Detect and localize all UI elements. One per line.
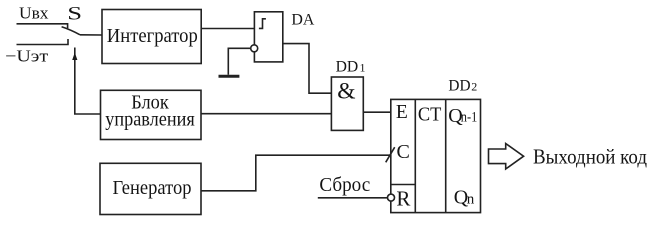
wire DA output to AND gate [283, 44, 332, 94]
label DD2 [448, 78, 477, 95]
pin R inverting circle [388, 194, 395, 201]
switch S lever [62, 27, 80, 35]
label CT [418, 104, 442, 126]
svg-text:C: C [397, 141, 410, 163]
wire integrator to comparator DA [201, 28, 254, 30]
svg-text:2: 2 [471, 80, 477, 94]
comparator DA inverting input circle [251, 45, 258, 52]
svg-text:R: R [396, 187, 410, 211]
svg-text:DD: DD [336, 58, 359, 75]
label Output code [533, 144, 647, 168]
label DD1 [336, 58, 366, 75]
block Control unit [101, 90, 202, 139]
wire inverting input to ground [228, 48, 250, 75]
svg-text:управления: управления [105, 109, 195, 131]
svg-text:&: & [337, 78, 355, 104]
label Uvx [19, 3, 49, 22]
wire switch to integrator [80, 34, 102, 36]
svg-text:1: 1 [360, 60, 366, 74]
label Sbros [319, 174, 370, 196]
switch S bottom contact wire [17, 39, 69, 45]
svg-text:E: E [396, 102, 408, 123]
svg-text:Сброс: Сброс [319, 174, 370, 196]
label S [67, 2, 82, 23]
label DA [291, 12, 315, 29]
arrowhead at switch [72, 53, 77, 61]
wire control unit to AND gate [201, 113, 331, 115]
comparator DA [254, 12, 282, 62]
svg-text:Uвх: Uвх [19, 3, 49, 22]
counter DD2 [391, 99, 481, 212]
pin C dynamic input slash [386, 147, 395, 162]
ground [219, 75, 240, 78]
svg-text:n: n [467, 191, 475, 207]
svg-text:−Uэт: −Uэт [5, 46, 49, 65]
svg-text:S: S [67, 2, 82, 23]
switch S top contact wire [17, 24, 68, 28]
label -Uet [5, 46, 49, 65]
svg-text:DD: DD [448, 78, 470, 95]
and-gate DD1 [331, 77, 363, 130]
pin C [397, 141, 410, 163]
svg-text:CT: CT [418, 104, 442, 126]
svg-text:Интегратор: Интегратор [107, 25, 198, 47]
pin Qn-1 [448, 105, 477, 127]
output code arrow [489, 144, 524, 170]
svg-text:Генератор: Генератор [113, 177, 192, 199]
wire generator to counter C [201, 155, 391, 191]
svg-text:Выходной код: Выходной код [533, 144, 647, 168]
wire AND output to counter E [363, 111, 391, 113]
pin E [396, 102, 408, 123]
wire control unit to switch arrow [75, 48, 101, 115]
wire reset to counter R [318, 197, 388, 199]
svg-text:DA: DA [291, 12, 315, 29]
block Integrator [102, 10, 201, 64]
svg-text:n-1: n-1 [461, 109, 478, 125]
block Generator [100, 163, 201, 214]
pin Qn [454, 186, 475, 208]
pin R [396, 187, 410, 211]
